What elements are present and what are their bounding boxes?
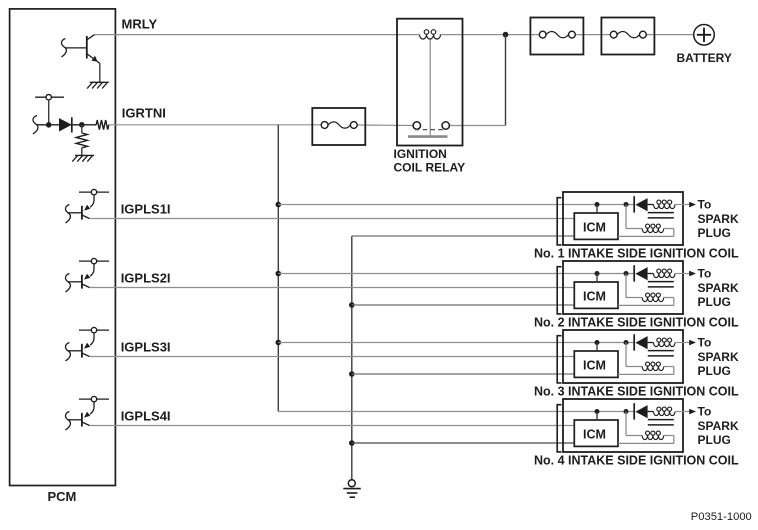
spark plug arrowhead module 1 <box>689 202 696 208</box>
wire diode to secondary module 1 <box>648 204 654 206</box>
transistor Q5 collector <box>82 422 90 426</box>
wire power feed to module 2 <box>278 273 634 275</box>
connector circle on Q4 emitter stub <box>91 327 96 332</box>
wire primary return to ICM4 <box>618 442 674 444</box>
secondary winding module 1 <box>654 205 676 209</box>
wire secondary to spark plug arrow module 2 <box>675 273 690 275</box>
diode module 3 cathode bar <box>633 334 635 350</box>
ICM U1 box <box>574 213 618 239</box>
wire primary down module 1 <box>673 229 675 237</box>
fuse F1 element wave <box>546 31 568 37</box>
connector circle on Q5 emitter stub <box>91 396 96 401</box>
diode module 1 (pointing left) <box>635 198 647 211</box>
wire stub dot to ICM1 top <box>596 205 598 214</box>
wire primary down module 2 <box>673 298 675 306</box>
connector bracket module 2 <box>557 267 561 314</box>
fuse F1 box <box>530 18 583 55</box>
wire branch down to primary module 2 <box>625 274 627 298</box>
battery plus sign <box>697 34 711 36</box>
fuse F2 element wave <box>617 31 639 37</box>
core lines module 1 <box>648 212 674 214</box>
wire power feed to module 3 <box>278 342 634 344</box>
svg-text:IGRTNI: IGRTNI <box>122 105 166 120</box>
transistor Q4 collector <box>82 353 90 357</box>
transistor Q2 emitter arrowhead <box>84 205 90 211</box>
core lines module 4 <box>648 419 674 421</box>
wire stub dot to ICM4 top <box>596 412 598 421</box>
wire branch down to primary module 3 <box>625 343 627 367</box>
wire R2 bottom lead <box>81 148 83 156</box>
transistor Q3 collector <box>82 284 90 288</box>
node module 2 dot at diode branch <box>624 271 629 276</box>
resistor R2 (pull-down, vertical) <box>76 133 87 148</box>
wire diode to secondary module 2 <box>648 273 654 275</box>
fuse F2 box <box>601 18 654 55</box>
node B junction dot <box>79 122 85 128</box>
PCM box <box>10 9 116 486</box>
fuse F3 element wave <box>328 122 350 128</box>
wire ground return module 3 <box>352 373 575 375</box>
transistor Q4 emitter curve <box>90 333 94 345</box>
connector bracket module 1 <box>557 198 561 245</box>
svg-text:PLUG: PLUG <box>698 364 731 378</box>
transistor Q1 base bar <box>86 36 88 59</box>
node junction dot on IGRTN line <box>46 122 52 128</box>
svg-text:PLUG: PLUG <box>698 295 731 309</box>
transistor Q4 emitter arrowhead <box>84 343 90 349</box>
transistor Q5 emitter arrowhead <box>84 412 90 418</box>
wire fuse F2 to battery <box>646 34 694 36</box>
relay K1 contact right circle <box>442 122 449 129</box>
wire primary return to ICM3 <box>618 373 674 375</box>
relay K1 plunger line <box>429 40 431 136</box>
wire primary left lead module 4 <box>626 435 642 437</box>
relay K1 contact left circle <box>413 122 420 129</box>
ICM U2 box <box>574 282 618 308</box>
wire stub dot to ICM3 top <box>596 343 598 352</box>
node module 4 dot at diode branch <box>624 409 629 414</box>
fuse F2 right circle <box>640 31 647 38</box>
earth ground symbol <box>343 488 361 490</box>
svg-text:SPARK: SPARK <box>698 281 739 295</box>
fuse F3 right circle <box>350 122 357 129</box>
fuse F1 right circle <box>569 31 576 38</box>
wire primary right lead module 4 <box>664 435 674 437</box>
relay K1 box <box>397 19 463 146</box>
ground (Q1 emitter chassis ground) <box>90 81 109 83</box>
diode D1 (series, pointing right) <box>59 118 72 131</box>
transistor Q3 base squiggle <box>65 274 70 293</box>
transistor Q2 base bar <box>81 206 83 220</box>
diode D1 cathode bar <box>71 117 73 132</box>
svg-text:PLUG: PLUG <box>698 433 731 447</box>
transistor Q2 collector <box>82 215 90 219</box>
wire secondary to spark plug arrow module 1 <box>675 204 690 206</box>
node MRLY/battery junction dot <box>503 32 509 38</box>
primary winding module 4 <box>642 436 664 440</box>
wire primary right lead module 2 <box>664 297 674 299</box>
core lines module 3 <box>648 350 674 352</box>
diode module 1 cathode bar <box>633 196 635 212</box>
wire secondary to spark plug arrow module 4 <box>675 411 690 413</box>
transistor Q3 emitter arrowhead <box>84 274 90 280</box>
ground (R2 chassis ground) <box>75 154 94 156</box>
wire primary left lead module 1 <box>626 228 642 230</box>
node module 3 dot over ICM <box>595 340 600 345</box>
fuse F3 box <box>312 108 365 145</box>
svg-text:ICM: ICM <box>583 220 606 234</box>
wire diode to node B <box>72 124 96 126</box>
transistor Q4 base lead <box>69 350 82 352</box>
primary winding module 3 <box>642 367 664 371</box>
wire connector down to IGRTN node <box>48 100 50 125</box>
transistor Q2 base squiggle <box>65 205 70 224</box>
transistor Q1 collector <box>87 35 95 40</box>
secondary winding module 2 <box>654 274 676 278</box>
svg-text:P0351-1000: P0351-1000 <box>691 511 752 523</box>
battery positive terminal circle <box>694 25 715 46</box>
wire stub dot to ICM2 top <box>596 274 598 283</box>
svg-text:ICM: ICM <box>583 427 606 441</box>
connector bracket module 3 <box>557 336 561 383</box>
transistor Q1 emitter <box>87 54 100 64</box>
transistor Q4 (IGPLS3I driver) top stub line <box>79 329 109 331</box>
diode module 2 (pointing left) <box>635 267 647 280</box>
svg-text:No. 1 INTAKE SIDE IGNITION COI: No. 1 INTAKE SIDE IGNITION COIL <box>534 246 739 260</box>
wire IGPLS3I net: PCM to ICM3 <box>90 356 575 358</box>
connector stub line above IGRTN node <box>35 96 64 98</box>
wire fuse F1 to fuse F2 <box>575 34 610 36</box>
svg-text:COIL RELAY: COIL RELAY <box>394 161 466 175</box>
transistor Q3 (IGPLS2I driver) top stub line <box>79 260 109 262</box>
resistor R1 (series, horizontal) <box>96 120 109 130</box>
diode module 2 cathode bar <box>633 265 635 281</box>
node power bus dot module 1 <box>276 202 282 208</box>
transistor Q2 base lead <box>69 212 82 214</box>
transistor Q5 base lead <box>69 419 82 421</box>
transistor Q5 base squiggle <box>65 412 70 431</box>
svg-text:MRLY: MRLY <box>122 17 158 32</box>
diode module 4 (pointing left) <box>635 405 647 418</box>
svg-text:No. 3 INTAKE SIDE IGNITION COI: No. 3 INTAKE SIDE IGNITION COIL <box>534 384 739 398</box>
wire primary left lead module 2 <box>626 297 642 299</box>
spark plug arrowhead module 3 <box>689 340 696 346</box>
svg-text:SPARK: SPARK <box>698 212 739 226</box>
svg-text:ICM: ICM <box>583 358 606 372</box>
wire Q1 emitter to ground <box>99 63 101 82</box>
svg-text:To: To <box>698 405 712 419</box>
svg-text:ICM: ICM <box>583 289 606 303</box>
node ground bus dot module 3 <box>349 371 355 377</box>
wire power feed to module 1 <box>278 204 634 206</box>
transistor Q2 emitter curve <box>90 195 94 207</box>
wire power feed to module 4 <box>278 411 634 413</box>
core lines module 2 <box>648 281 674 283</box>
wire ground bus vertical <box>351 236 353 480</box>
connector circle on Q2 emitter stub <box>91 189 96 194</box>
wire IGPLS4I net: PCM to ICM4 <box>90 425 575 427</box>
ICM U4 box <box>574 420 618 446</box>
ignition coil module 3 box <box>563 330 683 383</box>
connector bracket module 4 <box>557 405 561 452</box>
node power bus dot module 2 <box>276 271 282 277</box>
wire fuse F3 to relay contact left side <box>358 124 414 127</box>
transistor Q5 base bar <box>81 413 83 427</box>
svg-text:IGNITION: IGNITION <box>394 147 447 161</box>
wire R2 top lead <box>81 125 83 133</box>
svg-text:To: To <box>698 336 712 350</box>
IGRTN internal squiggle <box>33 116 38 135</box>
transistor Q3 emitter curve <box>90 264 94 276</box>
wire IGPLS1I net: PCM to ICM1 <box>90 218 575 220</box>
wire power bus vertical (from IGRTNI line) <box>277 125 279 412</box>
transistor Q4 base bar <box>81 344 83 358</box>
svg-text:IGPLS4I: IGPLS4I <box>121 409 171 424</box>
ignition coil module 4 box <box>563 399 683 452</box>
transistor Q5 (IGPLS4I driver) top stub line <box>79 398 109 400</box>
primary winding module 1 <box>642 229 664 233</box>
wire MRLY net: relay coil to fuse F1 <box>441 34 540 36</box>
wire relay contact right side to vertical <box>450 125 506 127</box>
transistor Q3 base lead <box>69 281 82 283</box>
spark plug arrowhead module 2 <box>689 271 696 277</box>
node ground bus dot module 4 <box>349 440 355 446</box>
transistor Q5 emitter curve <box>90 402 94 414</box>
wire secondary to spark plug arrow module 3 <box>675 342 690 344</box>
wire primary return to ICM1 <box>618 235 674 237</box>
wire primary right lead module 1 <box>664 228 674 230</box>
svg-text:BATTERY: BATTERY <box>677 51 732 65</box>
svg-text:IGPLS1I: IGPLS1I <box>121 202 171 217</box>
ignition coil module 2 box <box>563 261 683 314</box>
wire squiggle to diode <box>37 124 60 126</box>
node ground bus dot module 2 <box>349 302 355 308</box>
wire ground return module 1 <box>352 235 575 237</box>
wire diode to secondary module 4 <box>648 411 654 413</box>
svg-text:PCM: PCM <box>48 489 77 504</box>
transistor Q1 (MRLY driver) base squiggle <box>61 39 66 58</box>
ignition coil module 1 box <box>563 192 683 245</box>
spark plug arrowhead module 4 <box>689 409 696 415</box>
svg-text:No. 2 INTAKE SIDE IGNITION COI: No. 2 INTAKE SIDE IGNITION COIL <box>534 315 739 329</box>
wire IGPLS2I net: PCM to ICM2 <box>90 287 575 289</box>
node module 1 dot at diode branch <box>624 202 629 207</box>
ground terminal circle <box>348 480 355 487</box>
wire IGRTNI net: PCM to fuse F3 <box>109 124 321 126</box>
secondary winding module 4 <box>654 412 676 416</box>
fuse F3 left circle <box>321 122 328 129</box>
wire MRLY net: PCM to relay coil <box>95 34 420 36</box>
svg-text:SPARK: SPARK <box>698 350 739 364</box>
ICM U3 box <box>574 351 618 377</box>
node module 2 dot over ICM <box>595 271 600 276</box>
wire branch down to primary module 4 <box>625 412 627 436</box>
transistor Q4 base squiggle <box>65 343 70 362</box>
connector circle on IGRTN stub <box>46 95 51 100</box>
node power bus dot module 3 <box>276 340 282 346</box>
wire ground return module 2 <box>352 304 575 306</box>
svg-text:IGPLS3I: IGPLS3I <box>121 340 171 355</box>
wire battery junction down to relay contact <box>505 35 507 126</box>
transistor Q1 base lead <box>66 47 87 49</box>
transistor Q3 base bar <box>81 275 83 289</box>
wire primary return to ICM2 <box>618 304 674 306</box>
wire primary down module 3 <box>673 367 675 375</box>
secondary winding module 3 <box>654 343 676 347</box>
fuse F1 left circle <box>539 31 546 38</box>
relay K1 coil <box>420 35 441 39</box>
diode module 3 (pointing left) <box>635 336 647 349</box>
svg-text:PLUG: PLUG <box>698 226 731 240</box>
transistor Q2 (IGPLS1I driver) top stub line <box>79 191 109 193</box>
fuse F2 left circle <box>610 31 617 38</box>
node module 1 dot over ICM <box>595 202 600 207</box>
wire ground return module 4 <box>352 442 575 444</box>
svg-text:To: To <box>698 267 712 281</box>
transistor Q1 emitter arrowhead <box>91 56 97 62</box>
svg-text:SPARK: SPARK <box>698 419 739 433</box>
svg-text:IGPLS2I: IGPLS2I <box>121 271 171 286</box>
svg-text:To: To <box>698 198 712 212</box>
relay K1 armature bar <box>408 135 448 138</box>
node module 4 dot over ICM <box>595 409 600 414</box>
svg-text:No. 4 INTAKE SIDE IGNITION COI: No. 4 INTAKE SIDE IGNITION COIL <box>534 453 739 467</box>
wire primary down module 4 <box>673 436 675 444</box>
wire branch down to primary module 1 <box>625 205 627 229</box>
wire diode to secondary module 3 <box>648 342 654 344</box>
diode module 4 cathode bar <box>633 403 635 419</box>
wire primary right lead module 3 <box>664 366 674 368</box>
primary winding module 2 <box>642 298 664 302</box>
connector circle on Q3 emitter stub <box>91 258 96 263</box>
node module 3 dot at diode branch <box>624 340 629 345</box>
relay K1 contact dashed link <box>415 129 446 131</box>
wire primary left lead module 3 <box>626 366 642 368</box>
